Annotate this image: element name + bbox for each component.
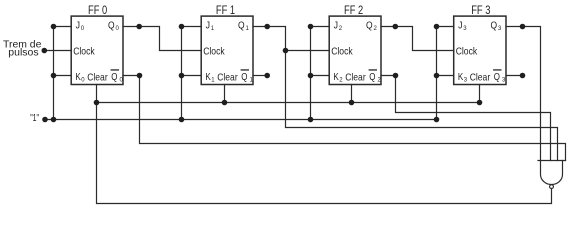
wire Q1 output down to NAND input line	[253, 27, 558, 161]
svg-text:FF 3: FF 3	[471, 5, 490, 17]
svg-text:K: K	[75, 71, 80, 83]
wire FF2 K stub	[311, 75, 330, 77]
node Q1-bar output dot	[264, 73, 270, 79]
svg-text:Clock: Clock	[203, 46, 225, 58]
node Q3-bar output dot	[520, 73, 526, 79]
wire Q1-bar output stub	[253, 75, 267, 77]
node Q0 output dot	[136, 24, 142, 30]
wire Trem de pulsos input to FF0 Clock	[44, 50, 71, 52]
wire FF0 Clear pin	[96, 85, 98, 103]
NAND gate U1 top plate	[538, 160, 566, 162]
svg-text:Q: Q	[366, 19, 373, 31]
wire FF0 J/K riser	[53, 27, 55, 120]
junction FF0 riser at 1-bus	[51, 117, 57, 123]
junction FF0 riser J	[51, 24, 57, 30]
NAND gate U1 body	[541, 161, 563, 185]
junction Clear bus FF3	[477, 100, 483, 106]
wire FF0 K stub	[54, 75, 72, 77]
svg-text:pulsos: pulsos	[8, 47, 38, 59]
junction FF2 riser at 1-bus	[308, 117, 314, 123]
wire FF3 Clear pin	[479, 85, 481, 103]
junction Clear bus FF0	[94, 100, 100, 106]
svg-text:Q: Q	[491, 19, 498, 31]
NAND gate U1 output bubble	[550, 185, 554, 189]
svg-text:K: K	[205, 71, 210, 83]
node Q0-bar output dot	[137, 73, 143, 79]
junction Q1 branch at FF2 clock row	[283, 48, 289, 54]
junction FF1 riser K	[179, 73, 185, 79]
junction FF3 riser J	[434, 24, 440, 30]
svg-text:Q: Q	[108, 19, 115, 31]
wire FF2 J stub	[311, 26, 330, 28]
junction FF2 riser K	[308, 73, 314, 79]
wire Clear bus horizontal	[97, 102, 480, 104]
junction node Trem de pulsos terminal	[42, 48, 48, 54]
svg-text:Clock: Clock	[456, 46, 478, 58]
junction Clear bus FF1	[222, 100, 228, 106]
junction FF2 riser J	[308, 24, 314, 30]
node Q2-bar output dot	[393, 73, 399, 79]
wire Q2-bar down and right to NAND input	[396, 76, 551, 161]
svg-text:J: J	[458, 19, 462, 31]
svg-text:Clock: Clock	[331, 46, 353, 58]
svg-text:Q: Q	[241, 71, 247, 83]
wire Q0 output to FF1 Clock	[123, 27, 201, 51]
junction FF3 riser K	[434, 73, 440, 79]
flip-flop FF1 box	[201, 16, 253, 84]
svg-text:J: J	[76, 19, 80, 31]
svg-text:Q: Q	[369, 71, 375, 83]
wire FF2 J/K riser	[310, 27, 312, 120]
wire Q2-bar output stub	[381, 75, 396, 77]
junction FF1 riser J	[179, 24, 185, 30]
junction Clear bus FF2	[349, 100, 355, 106]
wire Q0-bar output stub	[123, 75, 140, 77]
svg-text:J: J	[206, 19, 210, 31]
wire FF0 J stub	[54, 26, 72, 28]
svg-text:Q: Q	[111, 71, 117, 83]
svg-text:Clear: Clear	[87, 72, 108, 84]
svg-text:Q: Q	[494, 71, 500, 83]
wire Q3 output down to NAND input	[506, 27, 541, 161]
wire FF3 J/K riser	[436, 27, 438, 120]
wire FF3 J stub	[437, 26, 454, 28]
wire Q0-bar down and right to NAND input	[140, 76, 566, 161]
svg-text:J: J	[334, 19, 338, 31]
svg-text:Clear: Clear	[470, 72, 491, 84]
flip-flop FF3 box	[454, 16, 506, 84]
wire FF3 K stub	[437, 75, 454, 77]
junction node "1" terminal	[42, 117, 48, 123]
wire Q3-bar output stub	[506, 75, 523, 77]
wire Q2 output to FF3 Clock	[381, 27, 454, 51]
junction FF0 riser K	[51, 73, 57, 79]
svg-text:Clear: Clear	[217, 72, 238, 84]
wire FF1 J stub	[182, 26, 202, 28]
overbar of Q1-bar	[241, 69, 249, 70]
svg-text:FF 1: FF 1	[216, 5, 235, 17]
junction FF1 riser at 1-bus	[179, 117, 185, 123]
flip-flop FF0 box	[71, 16, 123, 84]
node Q3 output dot	[520, 24, 526, 30]
overbar of Q2-bar	[369, 69, 377, 70]
node Q2 output dot	[393, 24, 399, 30]
svg-text:Clock: Clock	[73, 46, 95, 58]
wire FF2 Clear pin	[351, 85, 353, 103]
overbar of Q0-bar	[111, 69, 119, 70]
svg-text:Q: Q	[238, 19, 245, 31]
junction FF3 riser at 1-bus	[434, 117, 440, 123]
svg-text:FF 2: FF 2	[344, 5, 363, 17]
svg-text:"1": "1"	[30, 112, 39, 124]
wire "1" bus horizontal	[45, 119, 437, 121]
svg-text:K: K	[333, 71, 338, 83]
wire Q1 branch to FF2 Clock	[286, 50, 330, 52]
wire NAND output return to Clear bus	[97, 103, 552, 204]
wire FF1 K stub	[182, 75, 202, 77]
svg-text:Clear: Clear	[345, 72, 366, 84]
wire FF1 J/K riser	[181, 27, 183, 120]
node Q1 output dot	[264, 24, 270, 30]
svg-text:K: K	[458, 71, 463, 83]
svg-text:FF 0: FF 0	[88, 5, 107, 17]
flip-flop FF2 box	[329, 16, 381, 84]
overbar of Q3-bar	[493, 69, 501, 70]
wire FF1 Clear pin	[224, 85, 226, 103]
